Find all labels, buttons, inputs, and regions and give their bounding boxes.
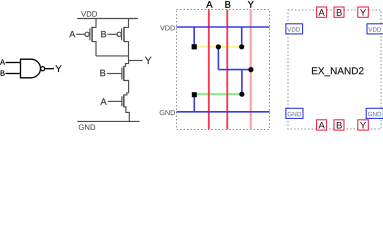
wire output Y	[45, 68, 54, 70]
pin GND left	[286, 108, 303, 118]
drain lead to Y node	[124, 42, 129, 61]
VDD label	[81, 11, 97, 16]
wire drop to green	[241, 70, 243, 95]
pin VDD right	[367, 24, 383, 34]
transistor M3 NMOS B	[107, 61, 129, 93]
bubble	[117, 32, 121, 36]
node A label PMOS	[69, 31, 75, 37]
node A label	[0, 59, 5, 64]
wire Y stub	[129, 60, 143, 62]
net yellow wire	[194, 46, 242, 48]
GND label	[79, 124, 96, 130]
net green wire	[194, 93, 242, 95]
frame dashed	[288, 10, 381, 129]
cell name EX_NAND2	[312, 67, 363, 76]
wire drain bus	[96, 55, 129, 57]
net label Y	[248, 1, 254, 8]
gate bar	[121, 28, 123, 40]
net B vertical red	[226, 10, 228, 130]
channel bar	[123, 66, 125, 81]
inversion bubble	[41, 67, 45, 71]
pin GND right	[366, 108, 383, 118]
node B label NMOS	[100, 70, 105, 76]
VDD rail	[77, 18, 138, 20]
source lead to GND	[124, 107, 130, 122]
gate wire	[107, 73, 122, 75]
wire VDD drop to yellow end	[241, 27, 243, 47]
pin A bottom	[317, 120, 327, 130]
node B label PMOS	[101, 31, 106, 37]
gate wire	[108, 100, 122, 102]
transistor M4 NMOS A	[108, 93, 130, 122]
channel bar	[123, 27, 125, 42]
GND rail blue	[177, 111, 270, 113]
gate wire	[108, 33, 118, 35]
wire output row horizontal	[218, 69, 251, 71]
pin B bottom	[334, 120, 344, 130]
node Y label	[56, 65, 62, 72]
node A label NMOS	[100, 98, 106, 104]
channel bar	[123, 95, 125, 108]
transistor M1 PMOS A	[76, 19, 96, 56]
source lead to VDD	[124, 19, 129, 28]
pin Y bottom	[358, 120, 369, 130]
frame dashed	[177, 10, 270, 130]
drain lead up	[124, 93, 129, 95]
gate wire	[76, 33, 85, 35]
junction dot D4	[239, 92, 244, 97]
VDD label	[160, 25, 175, 30]
pin B top	[334, 7, 344, 17]
wire VDD drop to contact S1	[193, 27, 195, 47]
gate bar	[121, 68, 123, 80]
gate bar	[121, 96, 123, 106]
wire drop from yellow to output row	[217, 47, 219, 70]
junction dot D1	[216, 44, 221, 49]
node B label	[1, 70, 5, 75]
bubble	[85, 32, 89, 36]
channel bar	[91, 27, 93, 42]
junction dot D2	[239, 44, 244, 49]
drain lead to Y node	[124, 61, 129, 67]
net A vertical red	[208, 10, 210, 130]
GND rail	[77, 120, 139, 122]
source lead to VDD	[92, 19, 96, 28]
pin Y top	[358, 7, 369, 17]
net label B	[225, 1, 230, 8]
drain lead	[92, 42, 96, 56]
contact S1 square	[192, 44, 197, 49]
GND label	[160, 110, 175, 115]
contact S2 square	[192, 92, 197, 97]
nand gate G1 body	[21, 59, 41, 78]
wire contact S2 to GND	[193, 94, 195, 112]
pin A top	[317, 7, 327, 17]
wire input B	[6, 73, 21, 75]
net Y vertical pink	[250, 10, 252, 130]
transistor M2 PMOS B	[108, 19, 129, 61]
pin VDD left	[286, 24, 303, 34]
net label A	[206, 1, 212, 8]
wire input A	[6, 62, 21, 64]
VDD rail blue	[177, 26, 270, 28]
junction dot D3	[248, 67, 253, 72]
source lead down	[124, 81, 129, 93]
node Y label	[145, 57, 152, 64]
gate bar	[89, 28, 91, 40]
